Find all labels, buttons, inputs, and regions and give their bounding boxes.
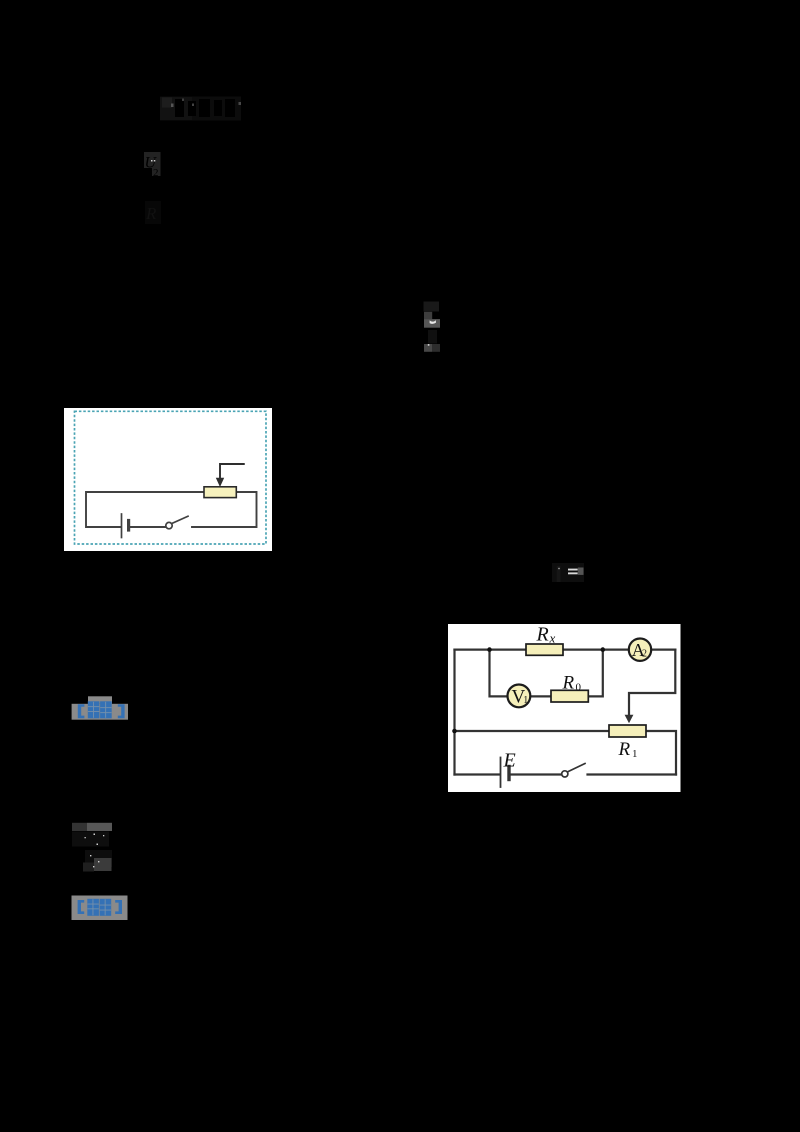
svg-text:R: R bbox=[145, 204, 157, 223]
svg-text:R: R bbox=[562, 673, 575, 694]
svg-text:R: R bbox=[618, 739, 631, 760]
svg-text:2: 2 bbox=[153, 167, 159, 179]
svg-text:2: 2 bbox=[642, 649, 647, 660]
svg-text:R: R bbox=[536, 623, 549, 645]
svg-text:0: 0 bbox=[576, 682, 582, 694]
svg-text:1: 1 bbox=[523, 695, 528, 706]
svg-text:E: E bbox=[503, 749, 516, 771]
svg-text:x: x bbox=[549, 631, 556, 646]
svg-text:1: 1 bbox=[632, 748, 638, 760]
